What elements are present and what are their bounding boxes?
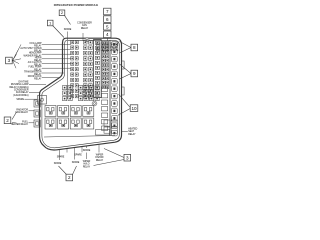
grid block C — [63, 86, 67, 90]
svg-text:RADIATOR: RADIATOR — [16, 108, 28, 111]
left wall component — [38, 96, 47, 105]
svg-text:FAN RELAY: FAN RELAY — [16, 91, 29, 94]
svg-text:HEADLAMP: HEADLAMP — [29, 52, 42, 55]
leader callout 8a — [120, 42, 132, 48]
callout 3 bottom right — [124, 154, 131, 161]
inner bottom shelf — [44, 136, 115, 138]
svg-text:RUNNING LAMP: RUNNING LAMP — [11, 83, 29, 86]
right inner fuse strip upper — [102, 42, 105, 45]
svg-text:5: 5 — [106, 24, 109, 29]
left connector tab 3 — [34, 120, 40, 127]
bottom right grid — [104, 120, 110, 126]
callout 8 right — [131, 44, 138, 51]
right inner fuse strip lower — [102, 87, 108, 91]
callout 2 bottom — [66, 174, 73, 181]
leader callout 2bb — [73, 166, 77, 175]
svg-text:3: 3 — [8, 58, 11, 63]
leader callout 2lb — [12, 122, 17, 125]
callout 10 right — [130, 105, 138, 112]
callout 2 top — [59, 10, 65, 16]
bottom leader 1 — [59, 150, 61, 160]
svg-text:FAN RELAY: FAN RELAY — [16, 111, 29, 114]
bottom leader 4 — [81, 147, 83, 152]
leader callout 3a — [104, 149, 124, 158]
svg-text:2: 2 — [6, 118, 9, 123]
bottom leader spare right — [86, 146, 88, 148]
left connector tab 2 — [34, 110, 40, 117]
callout 1 top — [47, 20, 53, 26]
right outer fuse column — [112, 42, 118, 48]
left connector tab 1 — [34, 100, 40, 107]
module inner wall — [42, 40, 120, 147]
leader callout 2la — [12, 112, 17, 120]
svg-text:SPARE: SPARE — [54, 162, 62, 165]
center right fuse block — [94, 40, 102, 98]
callout 5 stack — [104, 23, 111, 30]
fuse block divider — [109, 40, 111, 136]
callout 4 stack — [104, 31, 111, 38]
callout 2 left — [4, 117, 11, 124]
svg-text:RELAY: RELAY — [34, 78, 42, 81]
svg-text:SPARE: SPARE — [64, 28, 72, 31]
svg-text:A/C CLUTCH: A/C CLUTCH — [28, 61, 42, 64]
svg-text:AUTO SHUT DOWN: AUTO SHUT DOWN — [20, 47, 41, 50]
svg-text:SPARE: SPARE — [83, 149, 91, 152]
svg-text:8: 8 — [133, 45, 136, 50]
svg-text:FAN: FAN — [82, 24, 87, 27]
relay grid — [45, 106, 56, 117]
leader callout 9b — [120, 74, 132, 80]
leader condenser fan — [82, 33, 84, 41]
left fuse bank — [71, 41, 74, 44]
svg-text:6: 6 — [106, 17, 109, 22]
svg-text:SPARE: SPARE — [74, 154, 82, 157]
leader wiper onoff — [98, 145, 100, 153]
fan leaders callout 3 left — [13, 45, 21, 61]
leader callout 1 top — [53, 26, 64, 38]
leader callout 2 top — [64, 15, 70, 24]
svg-text:RELAY: RELAY — [81, 27, 89, 30]
leader callout 3b — [94, 160, 125, 166]
callout 6 stack — [104, 16, 111, 23]
svg-text:RELAY: RELAY — [83, 165, 91, 168]
svg-text:3: 3 — [126, 155, 129, 160]
top right relay grid — [97, 43, 100, 46]
svg-text:7: 7 — [106, 9, 109, 14]
svg-text:2: 2 — [68, 175, 71, 180]
leader callout 9a — [120, 64, 132, 74]
svg-text:DAYTIME: DAYTIME — [18, 80, 29, 83]
module outer wall — [40, 38, 122, 150]
svg-text:9: 9 — [133, 71, 136, 76]
leader callout 10a — [119, 94, 131, 108]
svg-text:RELAY (CANADA): RELAY (CANADA) — [9, 86, 28, 89]
svg-text:RELAY: RELAY — [96, 159, 104, 162]
svg-text:FOG LAMP: FOG LAMP — [30, 42, 42, 45]
svg-text:SPARE: SPARE — [16, 98, 24, 101]
right edge tab lower — [122, 87, 125, 95]
svg-text:SPARE: SPARE — [72, 161, 80, 164]
callout 9 right — [131, 70, 138, 77]
leader callout 10b — [118, 109, 131, 116]
right edge tab upper — [122, 61, 125, 69]
bottom leader 2 — [66, 149, 68, 153]
bolt hole center — [92, 101, 97, 106]
leader callout 8b — [120, 48, 132, 54]
leader callout 2ba — [59, 166, 67, 175]
svg-text:TRANSMISSION: TRANSMISSION — [24, 70, 42, 73]
svg-text:SPARE: SPARE — [57, 156, 65, 159]
svg-text:10: 10 — [131, 106, 137, 111]
mounting hole top — [85, 38, 89, 42]
center fuse bank — [83, 41, 87, 45]
svg-text:4: 4 — [106, 32, 109, 37]
leader wiper hilo — [86, 153, 88, 160]
inner channel line — [66, 41, 68, 99]
bottom leader 3 — [74, 148, 76, 160]
svg-text:INTEGRATED POWER MODULE: INTEGRATED POWER MODULE — [54, 3, 99, 7]
grid block D — [79, 86, 83, 90]
svg-text:RELAY: RELAY — [128, 133, 136, 136]
svg-text:SEAT: SEAT — [128, 130, 134, 133]
svg-text:HEATER RELAY: HEATER RELAY — [11, 123, 29, 126]
svg-text:(CALIFORNIA): (CALIFORNIA) — [13, 94, 29, 97]
bottom wide block — [96, 130, 110, 136]
stack leader — [106, 38, 108, 41]
svg-text:HEATED: HEATED — [128, 127, 137, 130]
callout 7 stack — [104, 8, 111, 15]
callout 3 left — [6, 57, 13, 64]
